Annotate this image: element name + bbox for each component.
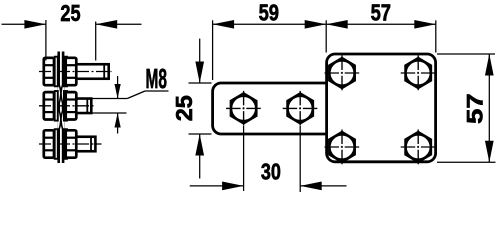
dim 25 right extension line [95, 22, 97, 61]
bolt 3 hex head [66, 130, 77, 157]
bar (terminal strap, rounded) [213, 83, 338, 134]
plate bolt BL (342,147) [325, 130, 360, 165]
dim 25v lower dim line segment [199, 134, 201, 179]
svg-text:25: 25 [171, 95, 197, 121]
bolt 1 washer right [64, 57, 67, 87]
bolt 3 centerline [39, 143, 102, 145]
dim 57 left arrow [326, 20, 348, 29]
bolt 3 washer right [64, 129, 67, 159]
dim 59 right arrow [305, 20, 327, 29]
M8 leader shelf [145, 90, 169, 92]
dim 25v upper dim line segment [199, 39, 201, 83]
dim 25 left tail [2, 23, 46, 25]
bolt 3 (bottom, cy=144) washer left [55, 129, 58, 159]
svg-text:57: 57 [371, 0, 391, 26]
dim 30 left tail [190, 185, 244, 187]
dim 30 right tail [300, 185, 346, 187]
busbar plates (two vertical bars, edge-on) [59, 52, 63, 164]
dim 59 left arrow [213, 20, 235, 29]
bar bolt 2 hex (cx=300.2) [283, 91, 318, 126]
bolt 2 shank [76, 99, 91, 114]
dim 57v line [488, 54, 490, 162]
dim 59 / 57 shared extension line [325, 20, 327, 52]
bolt 3 shank [76, 137, 95, 152]
dim 30 left arrow [222, 182, 244, 191]
break gap mask lower [58, 112, 65, 129]
M8 dim line upper segment [117, 76, 119, 99]
break line S1a (between top and middle bolts) [59, 84, 63, 104]
svg-text:M8: M8 [146, 63, 168, 94]
M8 extension line lower [90, 112, 127, 114]
break line S1b [59, 84, 63, 104]
dim 25v lower arrow (up) [195, 134, 204, 156]
plate bolt TL (342,73) [325, 56, 360, 91]
M8 extension line upper [90, 98, 127, 100]
square plate [327, 54, 436, 162]
dim 25v bottom extension line [189, 133, 212, 135]
M8 upper arrow [115, 84, 121, 99]
dim 25 right tail [96, 23, 142, 25]
dim 57 right arrow [414, 20, 436, 29]
svg-text:30: 30 [261, 159, 281, 185]
dim 25v top extension line [189, 82, 212, 84]
bolt 2 hex head [66, 92, 77, 119]
dim 25 left extension line [45, 20, 47, 61]
bolt 2 centerline [39, 105, 95, 107]
bolt 3 hex nut [44, 130, 54, 157]
dim 57v top extension line [437, 53, 495, 55]
M8 dim line lower segment [117, 113, 119, 134]
bolt 1 hex nut [44, 58, 54, 85]
bolt 2 (middle, cy=105.8) washer left [55, 91, 58, 121]
bolt 1 shank [76, 64, 108, 79]
bolt 1 centerline [39, 71, 112, 73]
dim 30 left extension line [243, 126, 245, 191]
bolt 1 hex head [66, 58, 77, 85]
svg-text:59: 59 [259, 0, 279, 26]
dim 25 left arrow [24, 20, 46, 29]
dim 57 right extension line [435, 20, 437, 52]
dim 57 line [326, 23, 436, 25]
dim 30 right extension line [299, 126, 301, 192]
break line S2b [59, 110, 63, 130]
break line S2a (between middle and bottom bolts) [59, 110, 63, 130]
M8 lower arrow [115, 113, 121, 128]
dim 25v upper arrow (down) [195, 62, 204, 84]
dim 57v bottom extension line [437, 161, 496, 163]
plate bolt TR (418.2,73) [401, 56, 436, 91]
break gap mask upper [58, 86, 65, 104]
bar bolt 1 hex (cx=243.6) [226, 91, 261, 126]
bolt 1 (top, cy=71.5) washer left [55, 57, 58, 87]
bolt 2 hex nut [44, 92, 54, 119]
svg-text:25: 25 [60, 0, 80, 26]
dim 57v top arrow [485, 54, 494, 76]
dim 59 line [213, 23, 327, 25]
dim 59 left extension line [212, 20, 214, 80]
plate bolt BR (418.2,147) [401, 130, 436, 165]
dim 25 right arrow [96, 20, 118, 29]
svg-text:57: 57 [463, 93, 488, 124]
bolt 2 washer right [64, 91, 67, 121]
dim 30 right arrow [300, 182, 322, 191]
M8 leader diagonal [127, 91, 145, 99]
dim 57v bottom arrow [485, 141, 494, 163]
